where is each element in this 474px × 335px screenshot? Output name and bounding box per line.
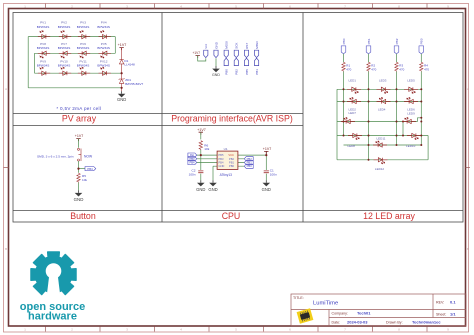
svg-text:MISO: MISO [255, 40, 259, 48]
svg-text:GND: GND [214, 41, 218, 49]
svg-text:VCC: VCC [228, 153, 234, 157]
svg-text:PB1: PB1 [367, 38, 371, 44]
svg-text:PV array: PV array [62, 113, 97, 123]
svg-text:PB5: PB5 [218, 153, 224, 157]
svg-text:MOSI: MOSI [225, 41, 229, 49]
svg-text:PB4: PB4 [189, 161, 195, 165]
svg-text:Company:: Company: [332, 312, 348, 316]
svg-text:PB4: PB4 [218, 161, 224, 165]
svg-text:12 LED array: 12 LED array [363, 211, 415, 221]
svg-text:Rst: Rst [190, 153, 194, 157]
svg-text:GND: GND [208, 187, 217, 192]
svg-text:10k: 10k [204, 147, 209, 151]
svg-text:REV:: REV: [436, 301, 444, 305]
svg-text:BPW34S: BPW34S [97, 25, 110, 29]
svg-text:NOW: NOW [84, 155, 93, 159]
svg-text:RST: RST [245, 43, 249, 49]
svg-text:BPW34S: BPW34S [97, 64, 110, 68]
svg-text:Programing interface(AVR ISP): Programing interface(AVR ISP) [171, 113, 293, 123]
svg-text:PB1: PB1 [247, 161, 253, 165]
svg-text:BPW34S: BPW34S [37, 46, 50, 50]
svg-text:BPW34S: BPW34S [58, 25, 71, 29]
svg-text:BPW34S: BPW34S [77, 64, 90, 68]
svg-text:LED3: LED3 [379, 79, 387, 83]
svg-text:U1: U1 [224, 147, 228, 151]
svg-text:PB3: PB3 [218, 157, 224, 161]
svg-text:GND: GND [117, 97, 126, 102]
svg-text:BPW34S: BPW34S [58, 46, 71, 50]
svg-text:PB3: PB3 [420, 38, 424, 44]
svg-text:100n: 100n [189, 173, 196, 177]
svg-text:Tech01: Tech01 [357, 311, 371, 316]
svg-text:PV1: PV1 [40, 20, 46, 24]
svg-text:SCK: SCK [235, 43, 239, 49]
svg-text:+1V7: +1V7 [193, 51, 201, 55]
svg-text:+1V7: +1V7 [197, 128, 206, 132]
svg-text:PV4: PV4 [101, 20, 107, 24]
svg-text:Drawn By:: Drawn By: [386, 320, 403, 324]
svg-text:BPW34S: BPW34S [58, 64, 71, 68]
svg-text:0.1: 0.1 [450, 300, 456, 305]
svg-text:LED12: LED12 [375, 167, 385, 171]
svg-text:LED9: LED9 [407, 111, 415, 115]
svg-text:LED8: LED8 [347, 144, 355, 148]
svg-text:BPW34S: BPW34S [97, 46, 110, 50]
svg-text:100n: 100n [270, 173, 277, 177]
svg-text:Techn0man1ec: Techn0man1ec [412, 319, 441, 324]
svg-text:PV2: PV2 [61, 20, 67, 24]
svg-text:PB0: PB0 [247, 164, 253, 168]
svg-text:ATtiny13: ATtiny13 [220, 173, 233, 177]
svg-text:PB5: PB5 [245, 69, 249, 75]
svg-text:PB2: PB2 [395, 38, 399, 44]
svg-text:LED7: LED7 [348, 111, 356, 115]
svg-text:SMD, 3 x 6 x 2.5 mm, 2pin: SMD, 3 x 6 x 2.5 mm, 2pin [37, 155, 74, 159]
svg-text:LED1: LED1 [348, 79, 356, 83]
svg-text:PB2: PB2 [235, 69, 239, 75]
svg-text:1/1: 1/1 [450, 311, 456, 316]
svg-text:LED5: LED5 [407, 79, 415, 83]
svg-text:Vcc: Vcc [204, 43, 208, 49]
svg-text:470: 470 [424, 67, 429, 71]
svg-text:GND: GND [196, 187, 205, 192]
svg-text:* 0,5V 2mA per cell: * 0,5V 2mA per cell [56, 106, 101, 111]
svg-text:GND: GND [262, 187, 271, 192]
svg-text:PB2: PB2 [229, 157, 235, 161]
svg-text:PB1: PB1 [229, 161, 235, 165]
svg-text:PB2: PB2 [247, 157, 253, 161]
svg-text:GND: GND [74, 197, 84, 202]
svg-text:+1V7: +1V7 [263, 147, 272, 151]
svg-text:Sheet:: Sheet: [436, 312, 446, 316]
svg-text:+1V7: +1V7 [75, 134, 84, 138]
svg-text:470: 470 [346, 67, 351, 71]
svg-text:GND: GND [212, 73, 220, 77]
svg-text:Date:: Date: [332, 320, 341, 324]
svg-text:2024-03-03: 2024-03-03 [347, 319, 368, 324]
svg-text:BPW34S: BPW34S [77, 46, 90, 50]
svg-text:LED10: LED10 [406, 144, 416, 148]
svg-text:CPU: CPU [222, 211, 241, 221]
svg-text:A: A [467, 87, 469, 91]
svg-text:10k: 10k [82, 178, 87, 182]
svg-text:TITLE:: TITLE: [293, 296, 304, 300]
svg-text:PB0: PB0 [229, 164, 235, 168]
svg-text:LL4148: LL4148 [124, 63, 135, 67]
svg-text:PB1: PB1 [255, 69, 259, 75]
svg-text:BPW34S: BPW34S [37, 64, 50, 68]
svg-text:LED4: LED4 [378, 107, 386, 111]
svg-text:PB0: PB0 [225, 69, 229, 75]
svg-text:BPW34S: BPW34S [37, 25, 50, 29]
svg-text:PB0: PB0 [342, 38, 346, 44]
svg-text:GND: GND [218, 164, 224, 168]
svg-text:hardware: hardware [28, 311, 77, 323]
svg-text:B: B [467, 247, 469, 251]
svg-text:LED11: LED11 [377, 137, 386, 141]
svg-text:BPW34S: BPW34S [77, 25, 90, 29]
svg-text:B: B [5, 247, 7, 251]
svg-text:470: 470 [399, 67, 404, 71]
svg-text:PB3: PB3 [189, 157, 195, 161]
svg-text:PB4: PB4 [87, 167, 93, 171]
svg-text:PV3: PV3 [80, 20, 86, 24]
svg-text:+1V7: +1V7 [118, 43, 127, 47]
svg-text:A: A [5, 87, 7, 91]
svg-text:LumiTime: LumiTime [313, 301, 338, 307]
svg-text:BZV55-B4V7: BZV55-B4V7 [125, 82, 143, 86]
svg-text:470: 470 [371, 67, 376, 71]
svg-text:Button: Button [70, 211, 96, 221]
